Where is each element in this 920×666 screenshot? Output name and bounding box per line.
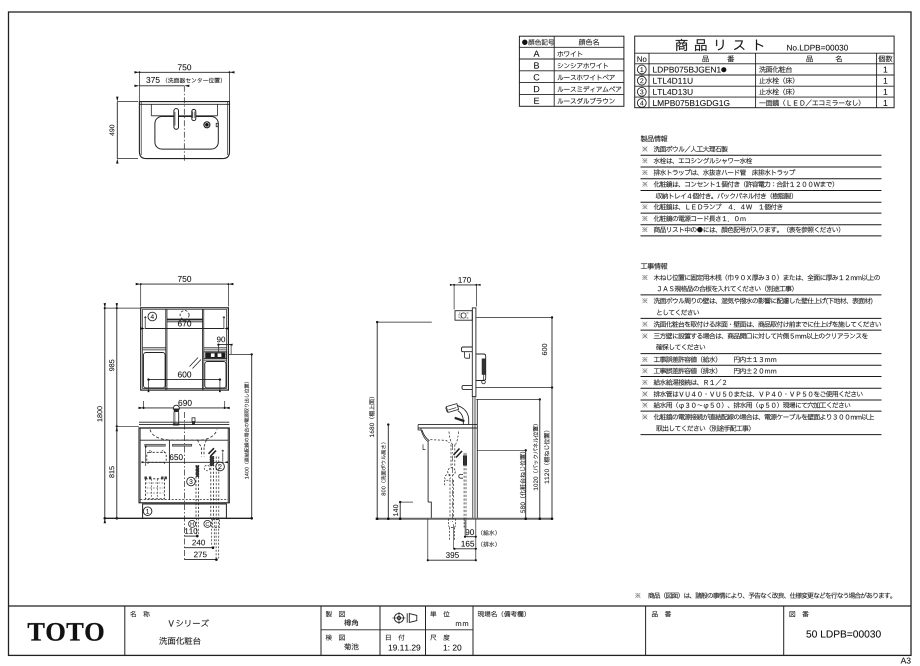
LED lamp bar [167, 319, 203, 321]
dimension 110 text and line [185, 528, 197, 534]
side view drain centerline extension [452, 524, 454, 549]
plan view faucet deck front line [151, 115, 217, 117]
pop-up rod front view [192, 418, 195, 422]
construction info line: 三方壁に設置する場合は、 [642, 333, 647, 338]
color table column divider [553, 36, 555, 106]
dimension 240 text and line [192, 540, 205, 546]
scale cell 尺度 [430, 634, 449, 640]
side view dim 165 (drain) line [455, 548, 476, 550]
side view supply stop valve (dark) [463, 456, 466, 465]
dimension 600 line [149, 379, 220, 381]
faucet front view [173, 405, 179, 409]
side view kick recess [428, 502, 431, 519]
side view 140 extension line [400, 501, 413, 503]
construction info line: 給水用（φ３０～φ５０） [642, 403, 647, 408]
product info line: 化粧鏡は、ＬＥＤランプ [642, 204, 647, 209]
side view 170 extension lines [453, 285, 455, 310]
mirror glass hatch marks [190, 358, 199, 367]
product name 洗面化粧台 [159, 637, 200, 645]
side view 800 label (rotated) [381, 443, 386, 496]
side view dim 1020 line (right) [539, 399, 541, 518]
dimension 670 text [178, 321, 191, 327]
mirror cabinet left column dividers [165, 309, 167, 389]
side view hidden bowl line (dashed) [430, 440, 449, 443]
title block vertical dividers [124, 606, 126, 655]
side view floor line [376, 518, 553, 520]
dimension 690 text [178, 400, 191, 406]
side view lamp box [455, 311, 472, 321]
mirror cabinet left lower tray [144, 353, 166, 389]
side view 580 label (rotated) [520, 452, 526, 513]
construction info line: 工事誤差許容値（排水） [642, 368, 647, 373]
product table title 商品リスト [676, 39, 764, 51]
wire basket rollers [145, 477, 147, 479]
dimension 670 line [145, 328, 224, 330]
side view faucet (swan neck) [458, 411, 464, 425]
side view hidden drain pipe (dashed) [450, 445, 452, 468]
dimension 985 text [109, 360, 114, 371]
side view outlet assembly [476, 354, 486, 381]
TOTO logo [28, 623, 104, 641]
extension line counter level (985/815) [117, 425, 139, 427]
product table row lines [635, 74, 894, 76]
product info line: 化粧鏡の電源コード長さ１ [642, 216, 647, 221]
product table rows [637, 65, 646, 74]
third angle projection symbol [394, 613, 403, 622]
side view 395 text [446, 552, 459, 558]
hidden wire basket lower-left (dashed) [146, 479, 165, 499]
side view hidden supply pipe (dashed) [463, 453, 465, 519]
side view mirror panel [472, 308, 476, 397]
title block middle divider [321, 629, 473, 631]
side view 1680 label (rotated) [369, 397, 374, 437]
side view dim 580 line (right) [525, 450, 527, 518]
construction info line: 取出してください（別途手 [656, 425, 750, 431]
side view outlet cord and plug [482, 375, 485, 381]
side view dim 1120 line (right) [551, 388, 553, 519]
plan view dimension 490 line [116, 102, 118, 159]
mirror cabinet inner frame lines [142, 309, 144, 388]
side view hidden drain funnel (dashed) [449, 432, 459, 445]
plan view center line (dash-dot) [183, 86, 185, 163]
dimension 1800 text [97, 406, 102, 421]
plan view wash bowl outline [155, 117, 218, 150]
side view 1680 extension line [377, 321, 432, 323]
product table header row line [635, 63, 894, 65]
color table header 顔色記号 [522, 39, 554, 45]
plan view counter inner side lines [140, 102, 142, 155]
side view bowl front slope [422, 430, 430, 441]
side view 1020 label (rotated) [533, 424, 538, 490]
plan view extension lines for 750 [138, 72, 140, 101]
cabinet outline (front view) [139, 428, 229, 503]
side view centerline of drain (dash-dot) [452, 444, 454, 522]
mirror cabinet right column dividers [202, 309, 204, 389]
construction info line: 排水管はＶＵ４０・ＶＵ５ [642, 392, 647, 397]
side view dim 1680 line [376, 322, 378, 519]
plan view drain [204, 122, 210, 128]
side view cabinet front line [427, 441, 429, 502]
hidden overflow pipe (dashed) [215, 457, 217, 519]
product table title row line [635, 52, 894, 54]
dimension 90 line [218, 344, 231, 346]
connector 90-dim to 1400 extension [230, 345, 232, 355]
kick plate (front view) [143, 504, 227, 518]
side view dim 600 line (right) [551, 318, 553, 388]
dimension 1400 label (rotated) [244, 382, 249, 479]
item circle 1 [143, 507, 152, 516]
front view 750 extension lines [140, 284, 142, 306]
side view 600 label (rotated) [542, 344, 547, 355]
side view shelf bracket hook [465, 352, 470, 359]
side view 580 extension line [477, 449, 525, 451]
plan view backsplash line [139, 103, 229, 105]
mirror cabinet item circle 4 [148, 312, 157, 321]
mirror cabinet left shelf lines [143, 347, 166, 349]
center line below cabinet (dash-dot) [183, 412, 185, 562]
counter top lines (front view) [139, 421, 229, 423]
product info line: 洗面ボウル／人工大理石製 [642, 147, 647, 152]
drawing number cell 図番 [790, 611, 809, 617]
product table column lines [648, 53, 650, 107]
dimension 815 line (left) [116, 426, 118, 518]
side view counter [418, 424, 477, 426]
product info line: 化粧鏡は、コンセント１個 [642, 182, 647, 187]
product table headers [637, 56, 646, 61]
product name Vシリーズ [169, 619, 209, 626]
name cell label 名称 [130, 611, 149, 617]
plan view dimension 375 line [139, 85, 184, 87]
drafter cell 製図 [326, 611, 345, 617]
construction info line: 洗面ボウル周りの壁は、湿 [642, 298, 647, 303]
side view counter nose [418, 425, 421, 430]
front view dimension 750 text [178, 276, 191, 282]
mirror cabinet right lower tray [205, 362, 226, 389]
construction info line: 給水給湯接続は、Ｒ１／２ [642, 380, 647, 385]
plan view dimension 490 text [109, 125, 114, 136]
construction info line: 工事誤差許容値（給水） [642, 357, 647, 362]
dimension 90 (outlet) text [217, 337, 225, 343]
floor line [105, 517, 253, 519]
below floor drain stubs (dashed) [211, 518, 213, 546]
side view below floor drain (dashed) [449, 519, 456, 528]
side view dimension 170 text [458, 277, 470, 283]
dimension 650 text [170, 454, 183, 460]
dimension 600 down ticks with arrows [148, 380, 150, 388]
dimension 650 line [146, 461, 224, 463]
cold water symbol C [204, 520, 211, 527]
side view dim 800 line [387, 425, 389, 519]
side view dimension 170 line [454, 284, 476, 286]
part number cell 品番 [652, 611, 671, 617]
cabinet door divider [168, 440, 170, 499]
dimension 1400 line (right) [251, 354, 253, 518]
hidden supply pipe with stop valve (dashed, item3) [195, 465, 197, 518]
side view middle shelf [462, 347, 473, 352]
dimension 275 text and line [194, 552, 207, 558]
door handle left (gray slat) [145, 444, 166, 446]
plan view faucet handle (pill) [192, 109, 196, 120]
unit cell 単位 [430, 611, 449, 617]
sheet size label A3 [901, 658, 911, 664]
product info line: 水栓は、エコシングルシャ [642, 158, 647, 163]
product info line: 排水トラップは、水抜きハ [642, 170, 647, 175]
outlet shelf box [204, 352, 227, 359]
side view 1120 extension line [476, 387, 552, 389]
LED lamp dashed circle [180, 311, 189, 320]
dimension 600 text [178, 372, 191, 378]
product info line: 商品リスト中の●には、顔 [642, 227, 647, 232]
plan view dimension 750 line [139, 71, 229, 73]
plan view overflow slot [216, 123, 218, 126]
cabinet apron line [140, 439, 228, 441]
side view 600 extension top [476, 317, 552, 319]
side view dim 395 line [428, 559, 476, 561]
plan view counter outline [139, 102, 229, 159]
side view drain pipe to floor (dashed) [449, 480, 451, 519]
side view drain hatch marks [454, 449, 460, 456]
date cell 日付 [386, 634, 404, 640]
side view bowl bracket [423, 444, 426, 449]
section title 製品情報 [641, 135, 668, 141]
side view 1120 label (rotated) [544, 431, 550, 484]
site name cell 現場名（備考欄） [478, 611, 526, 617]
section title 工事情報 [641, 263, 667, 269]
below floor drain box (dashed) [213, 520, 220, 528]
dimension 690 line [144, 407, 225, 409]
construction info line: としてください [657, 310, 699, 316]
color table row lines [519, 46, 624, 48]
drain hatch marks (front view) [209, 448, 215, 454]
side view outlet dark bar [482, 359, 486, 375]
color table header 顔色名 [579, 39, 599, 45]
mirror cabinet outline [141, 308, 229, 390]
side view dim 140 line [399, 502, 401, 519]
color code table outline [519, 36, 624, 106]
hidden drain funnel (dashed) [198, 440, 207, 447]
mirror cabinet right shelf lines [204, 347, 227, 349]
color table rows A-E [534, 51, 540, 57]
product list table outline [635, 36, 894, 108]
side view lower shelf [462, 386, 472, 390]
hidden basin outline (dashed arc) [150, 430, 217, 441]
cabinet door bottom line (dashed) [140, 499, 228, 501]
side view lamp inner detail [461, 313, 466, 318]
side view 90 text [466, 529, 474, 535]
side view supply below floor (solid gray) [465, 519, 467, 536]
hidden inner tray upper-left (dashed) [147, 452, 166, 462]
construction info line: 木ねじ位置に固定用木桟（ [642, 275, 647, 280]
dimension 815 text [109, 466, 114, 477]
front view dimension 750 line [141, 283, 229, 285]
plan view faucet spout (pill) [174, 109, 179, 130]
title block top line [9, 605, 912, 607]
dimension 985 line (left) [116, 308, 118, 426]
plan view dimension 750 text [178, 64, 191, 70]
construction info line: 洗面化粧台を取付ける床面 [642, 322, 647, 327]
checker cell 検図 [326, 634, 345, 640]
disclaimer note [635, 593, 640, 598]
hidden drain trap parts (dashed, item2) [210, 457, 212, 519]
dimension 690 extension ticks [143, 401, 145, 408]
item circle 3 [187, 477, 196, 486]
door handle right (gray slat) [172, 444, 191, 446]
below floor supply stub (dashed) [195, 518, 197, 535]
product table title number No.LDPB=00030 [787, 45, 848, 51]
side view dim 90 (supply) line [465, 536, 476, 538]
side view 1020 extension line [476, 398, 540, 400]
drawing number 50 LDPB=00030 [806, 630, 880, 637]
mirror cabinet bottom edge lines [143, 388, 227, 390]
extension line top-left (1800/985) [105, 307, 141, 309]
outlet shelf bottom line [204, 359, 227, 361]
side view supply below floor (dashed) [463, 519, 465, 529]
side view 165 text [461, 541, 474, 547]
construction info line: 化粧鏡の電源接続が直結配 [642, 414, 647, 419]
construction info line: 確保してください [656, 344, 705, 350]
dimension 1800 line (far left) [104, 308, 106, 518]
hot water symbol H [189, 520, 196, 527]
side view wall lines below mirror [472, 397, 474, 519]
plan view dimension 375 (basin center) text [146, 77, 159, 83]
side view trap body (dashed circles) [448, 468, 456, 476]
product info line: 収納トレイ４個付き。バッ [656, 193, 793, 199]
construction info line: ＪＡＳ規格品の合板を入れ [658, 286, 794, 292]
extension line outlet to 1400 [228, 353, 251, 355]
side view 140 label (rotated) [393, 505, 398, 516]
item circle 2 [216, 462, 225, 471]
plan view extension lines for 490 [117, 101, 138, 103]
outlet (dark with two slots) [206, 353, 226, 358]
dimension 670 extension ticks [144, 317, 146, 328]
